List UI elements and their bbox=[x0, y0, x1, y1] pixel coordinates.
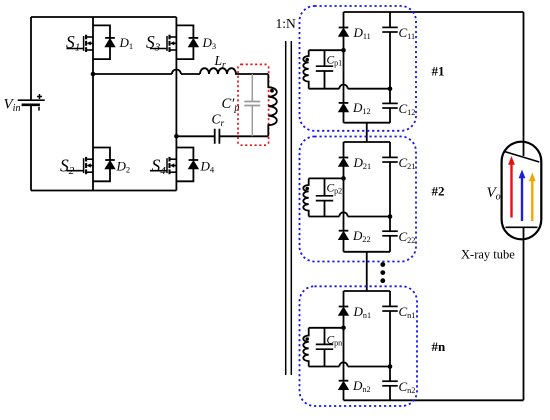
wire capacitor column #2 bbox=[389, 142, 391, 252]
diode D4 branch wire bbox=[176, 148, 193, 182]
diode D1 branch wire bbox=[93, 25, 110, 59]
secondary polarity dot #2 bbox=[305, 187, 309, 191]
wire capacitor column #n bbox=[389, 291, 391, 400]
transistor S3 bbox=[150, 35, 177, 52]
capacitor Cp2 lead bbox=[324, 178, 326, 216]
wire winding top to diode column #n bbox=[309, 327, 344, 329]
wire winding top to diode column #1 bbox=[309, 49, 344, 51]
capacitor Cr bbox=[215, 129, 220, 144]
wire lower output right of Cr bbox=[219, 135, 268, 137]
capacitor C&apos;p (gray parasitic) bbox=[244, 74, 260, 136]
diode Dn1 bbox=[339, 307, 349, 316]
node bridge right midpoint bbox=[174, 134, 179, 139]
node mid capacitor junction #1 bbox=[388, 86, 393, 91]
svg-text:#2: #2 bbox=[432, 184, 445, 199]
wire mid with hop over diode column #2 bbox=[309, 216, 390, 218]
wire diode column #1 bbox=[343, 12, 345, 123]
stage #2 bottom wire bbox=[344, 251, 391, 253]
capacitor Cn1 bbox=[382, 306, 398, 311]
stage #1 top wire bbox=[344, 11, 524, 13]
node bridge left midpoint bbox=[91, 72, 96, 77]
node winding top junction #n bbox=[341, 326, 346, 331]
diode D1 bbox=[105, 38, 115, 47]
wire lower output left of Cr bbox=[176, 135, 214, 137]
svg-text:1:N: 1:N bbox=[276, 16, 297, 31]
wire right rail bottom bbox=[523, 239, 525, 400]
wire hop #n bbox=[339, 362, 347, 366]
wire left rail upper bbox=[30, 17, 32, 100]
diode Dn2 bbox=[339, 381, 349, 390]
ellipsis dots between stages bbox=[380, 262, 385, 283]
transformer core lines bbox=[286, 41, 292, 375]
X-ray tube envelope bbox=[502, 142, 542, 240]
transistor S4 bbox=[150, 157, 177, 174]
svg-text:X-ray tube: X-ray tube bbox=[461, 248, 515, 262]
node mid capacitor junction #2 bbox=[388, 214, 393, 219]
wire mid with hop over diode column #1 bbox=[309, 88, 390, 90]
wire left leg bbox=[92, 17, 94, 191]
stage #2 top wire bbox=[344, 141, 391, 143]
diode D2 branch wire bbox=[93, 148, 110, 182]
secondary polarity dot #1 bbox=[305, 58, 309, 62]
diode D3 bbox=[189, 38, 199, 47]
blue electron arrow bbox=[519, 170, 526, 222]
wire winding top to diode column #2 bbox=[309, 177, 344, 179]
diode D22 bbox=[339, 231, 349, 240]
wire left rail lower bbox=[30, 105, 32, 191]
inductor Lr bbox=[200, 68, 268, 74]
blue dashed box stage 1 bbox=[300, 6, 417, 131]
svg-text:#1: #1 bbox=[432, 64, 445, 79]
wire hop #2 bbox=[339, 212, 347, 216]
capacitor C22 bbox=[382, 231, 398, 236]
diode D21 bbox=[339, 158, 349, 167]
primary polarity dot bbox=[270, 89, 274, 93]
diode D3 branch wire bbox=[176, 25, 193, 59]
secondary winding #n bbox=[303, 328, 308, 367]
wire connector stage1-stage2 bbox=[366, 123, 368, 142]
transistor S1 bbox=[67, 35, 94, 52]
stage #n bottom wire bbox=[344, 399, 524, 401]
red dashed box around C&apos;p bbox=[238, 64, 269, 145]
wire hop #1 bbox=[339, 84, 347, 88]
wire right rail top bbox=[523, 12, 525, 142]
red electron arrow bbox=[508, 156, 515, 218]
wire diode column #n bbox=[343, 291, 345, 400]
stage #1 bottom wire bbox=[344, 122, 391, 124]
wire mid with hop over diode column #n bbox=[309, 366, 390, 368]
transformer primary winding bbox=[268, 74, 277, 136]
svg-text:#n: #n bbox=[432, 339, 447, 354]
wire upper output with crossover hop bbox=[93, 73, 200, 75]
wire top rail bbox=[31, 16, 176, 18]
capacitor Cn2 bbox=[382, 381, 398, 386]
wire hop over right leg bbox=[172, 70, 181, 75]
wire capacitor column #1 bbox=[389, 12, 391, 123]
capacitor Cp1 bbox=[316, 66, 333, 71]
secondary winding #2 bbox=[303, 178, 308, 216]
blue dashed box stage n bbox=[300, 286, 418, 406]
capacitor C11 bbox=[382, 27, 398, 32]
secondary polarity dot #n bbox=[305, 337, 309, 341]
cathode line bbox=[506, 226, 538, 228]
capacitor Cpn lead bbox=[324, 328, 326, 367]
wire diode column #2 bbox=[343, 142, 345, 252]
wire connector stage2-stagen bbox=[366, 252, 368, 291]
capacitor Cp1 lead bbox=[324, 50, 326, 88]
blue dashed box stage 2 bbox=[300, 137, 417, 262]
node mid capacitor junction #n bbox=[388, 364, 393, 369]
stage #n top wire bbox=[344, 290, 391, 292]
anode slanted target bbox=[504, 151, 540, 162]
transistor S2 bbox=[67, 157, 94, 174]
capacitor Cpn bbox=[316, 344, 333, 349]
anode lead inside tube bbox=[523, 142, 525, 156]
yellow electron arrow bbox=[529, 173, 536, 222]
node winding top junction #2 bbox=[341, 176, 346, 181]
node winding top junction #1 bbox=[341, 48, 346, 53]
diode D11 bbox=[339, 28, 349, 37]
secondary winding #1 bbox=[303, 50, 308, 88]
capacitor C21 bbox=[382, 157, 398, 162]
wire bottom rail bbox=[31, 190, 176, 192]
diode D12 bbox=[339, 103, 349, 112]
capacitor Cp2 bbox=[316, 196, 333, 201]
wire right leg bbox=[175, 17, 177, 191]
battery Vin bbox=[18, 94, 45, 111]
cathode lead inside tube bbox=[523, 227, 525, 239]
diode D4 bbox=[189, 160, 199, 169]
capacitor C12 bbox=[382, 103, 398, 108]
diode D2 bbox=[105, 160, 115, 169]
